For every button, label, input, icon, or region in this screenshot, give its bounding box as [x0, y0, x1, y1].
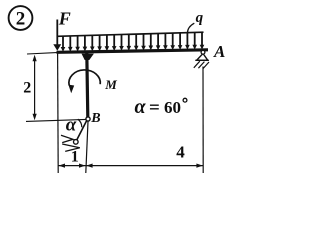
svg-text:A: A: [213, 42, 225, 61]
support A hatching: [194, 61, 200, 68]
dimension 2: top extension line: [27, 53, 57, 54]
hinge B: [86, 117, 90, 121]
svg-text:α: α: [135, 96, 147, 118]
lower hinge of rod: [74, 140, 79, 145]
right extension line (below support A): [202, 67, 204, 174]
left extension line (below beam left end): [57, 53, 60, 173]
svg-text:2: 2: [23, 80, 31, 97]
leader line for q: [187, 23, 194, 33]
svg-text:60: 60: [164, 98, 181, 117]
dimension 1 line: [59, 165, 86, 167]
gusset at top of column: [82, 54, 94, 60]
support rod at B (inclined link): [77, 121, 87, 140]
pin support A: [197, 54, 208, 61]
svg-text:M: M: [104, 77, 117, 92]
svg-text:2: 2: [16, 9, 26, 30]
middle extension line (below B): [86, 122, 88, 174]
dimension 2: vertical dimension line with arrows: [34, 57, 36, 118]
svg-text:4: 4: [176, 143, 185, 162]
svg-text:q: q: [196, 10, 204, 26]
problem number badge 2: [9, 6, 33, 30]
svg-text:F: F: [58, 8, 71, 28]
ground hatching at B support: [61, 135, 73, 142]
svg-text:=: =: [149, 98, 160, 119]
svg-text:B: B: [90, 111, 100, 126]
moment arrowhead: [68, 85, 74, 94]
beam (horizontal member): [57, 50, 209, 53]
dimension 4 line: [86, 165, 203, 167]
moment M arc: [69, 70, 100, 85]
vertical column member from beam down to B: [87, 53, 88, 117]
dimension 2: bottom extension line (at B level): [26, 119, 86, 121]
angle arc alpha at B: [78, 119, 82, 127]
svg-text:1: 1: [71, 148, 79, 165]
distributed load arrows: [62, 36, 64, 48]
force F arrow: [56, 20, 58, 46]
distributed load top line: [57, 32, 203, 36]
svg-text:α: α: [66, 115, 77, 136]
